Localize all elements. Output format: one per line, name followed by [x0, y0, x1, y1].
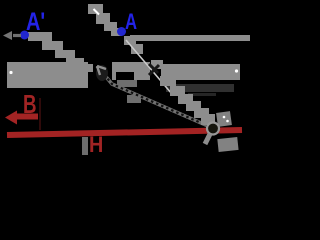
white core of upper ray: [94, 9, 100, 15]
white speck in left band: [9, 71, 12, 74]
lower-left lash: [205, 134, 210, 144]
dark blob at slit: [96, 65, 108, 81]
white speck in right band: [235, 69, 238, 72]
white specks in eyebrow: [223, 116, 226, 119]
svg-text:A: A: [125, 10, 137, 35]
svg-text:B: B: [23, 89, 37, 119]
thick gray start of ray from A (steps): [124, 36, 136, 45]
point A: [117, 27, 126, 36]
svg-text:A': A': [26, 8, 45, 36]
svg-text:H: H: [89, 133, 103, 155]
white ray from A down: [126, 40, 172, 94]
shadow band under right band: [166, 84, 234, 92]
right band lip: [151, 60, 163, 69]
dark dashes on ribbon: [97, 66, 208, 126]
horizontal line from A to right edge: [130, 35, 250, 41]
right gray band: [161, 64, 240, 80]
eyeball: [207, 123, 219, 135]
red ground line: [7, 130, 242, 135]
faint red connector: [39, 98, 41, 130]
lower-right block: [217, 137, 238, 152]
black patch in middle band: [116, 72, 134, 82]
gray post under line: [82, 137, 88, 155]
arrow marks on ray: [149, 64, 159, 75]
thick sight segment from A' (stepped blocks): [28, 32, 52, 41]
eyebrow block of eye: [216, 111, 232, 127]
middle gray band: [112, 62, 150, 80]
faint line under right band: [188, 93, 216, 96]
thick ray above A (stepped blocks): [88, 4, 103, 14]
point A': [20, 31, 29, 40]
arrowhead of dashed line: [97, 66, 106, 75]
dashed sight ribbon to eye: [97, 66, 208, 126]
red arrow B: [5, 111, 17, 125]
ribbon fringe blocks: [117, 80, 137, 87]
left gray band: [7, 62, 88, 88]
dashed arrow left of A': [13, 34, 21, 37]
refracted thick ray to eye (stepped blocks): [160, 76, 176, 86]
